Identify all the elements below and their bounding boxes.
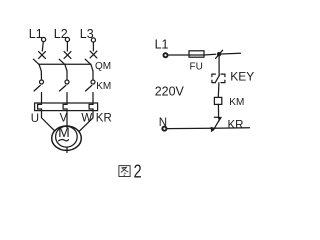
terminal L3 circle [91, 38, 95, 42]
wire L3 terminal to fuse mark [92, 42, 94, 51]
contactor KM blade phase 1 [34, 85, 40, 91]
wire L2 terminal to fuse mark [66, 42, 68, 51]
junction dot [217, 52, 221, 56]
wire KR box to motor W [80, 109, 94, 131]
junction slash [216, 50, 223, 58]
svg-text:QM: QM [95, 61, 111, 72]
wire KEY to KM coil [217, 83, 220, 98]
thermal contact KR blade [213, 120, 219, 131]
contactor KM contact circle phase 3 [91, 80, 95, 84]
wire KM contact to KR box phase 3 [92, 93, 94, 105]
motor bottom tick [66, 147, 68, 152]
breaker QM linkage bar [39, 63, 91, 65]
KR heater element phase 2 [63, 104, 67, 109]
svg-text:KR: KR [228, 119, 244, 131]
terminal L2 circle [65, 37, 69, 41]
breaker contact mark X phase 2 [64, 52, 71, 59]
fuse FU body [189, 51, 204, 57]
svg-text:2: 2 [134, 161, 142, 182]
breaker QM blade phase 1 [33, 59, 38, 64]
wire QM to KM contact phase 2 [65, 64, 67, 80]
fuse FU internal wire [189, 54, 204, 56]
svg-text:KEY: KEY [230, 70, 254, 84]
breaker QM blade phase 2 [59, 59, 64, 64]
svg-text:KM: KM [229, 97, 244, 108]
motor tilde [59, 140, 69, 141]
switch KEY corner TR [221, 74, 225, 77]
contactor KM contact circle phase 1 [40, 80, 44, 84]
wire fuse to junction [204, 53, 216, 56]
wire N line [167, 127, 250, 130]
thermal contact KR top tick [214, 116, 218, 118]
breaker contact mark X phase 1 [39, 52, 46, 59]
svg-text:220V: 220V [155, 85, 185, 99]
svg-text:W: W [81, 112, 92, 124]
terminal L1 (right) [163, 53, 167, 57]
contactor KM blade phase 3 [86, 85, 92, 91]
KR heater element phase 3 [89, 104, 93, 109]
motor M inner circle [56, 126, 78, 147]
breaker contact mark X phase 3 [90, 51, 97, 58]
wire KM contact to KR box phase 2 [66, 93, 68, 105]
contactor coil KM box [214, 97, 221, 104]
breaker QM blade phase 3 [85, 59, 90, 64]
wire L1 to fuse FU [168, 54, 189, 56]
thermal contact KR top arrowhead [217, 117, 222, 121]
wire KM contact to KR box phase 1 [41, 93, 43, 105]
wire KR box to motor V [66, 109, 68, 128]
KR heater element phase 1 [38, 104, 42, 109]
switch KEY blade [216, 75, 220, 82]
svg-text:KR: KR [96, 113, 112, 125]
terminal L1 circle [42, 37, 46, 41]
svg-text:V: V [60, 113, 68, 125]
caption 图2 [119, 166, 130, 177]
switch KEY corner BR [221, 80, 225, 82]
svg-text:L1: L1 [155, 38, 169, 52]
terminal N [162, 127, 166, 131]
glyph 图 inner strokes [121, 167, 128, 175]
wire KM coil to KR contact [217, 104, 219, 117]
wire QM to KM contact phase 3 [91, 64, 93, 80]
switch KEY corner TL [212, 74, 216, 77]
glyph 图 box [119, 166, 130, 177]
svg-text:L1: L1 [29, 27, 43, 41]
svg-text:U: U [31, 113, 39, 125]
contactor KM blade phase 2 [60, 85, 66, 91]
thermal contact KR bottom arrowhead [211, 127, 216, 133]
motor M outer circle [52, 126, 82, 150]
thermal relay KR box [35, 103, 98, 111]
svg-text:KM: KM [96, 81, 111, 92]
switch KEY corner BL [212, 80, 216, 82]
wire QM to KM contact phase 1 [39, 64, 42, 80]
wire junction down to KEY [218, 56, 220, 75]
svg-text:M: M [58, 124, 70, 140]
wire KR box to motor U [42, 109, 55, 131]
wire L1 terminal to fuse mark [42, 42, 43, 51]
svg-text:FU: FU [190, 62, 203, 73]
wire junction to right [221, 52, 241, 55]
contactor KM contact circle phase 2 [65, 80, 69, 84]
